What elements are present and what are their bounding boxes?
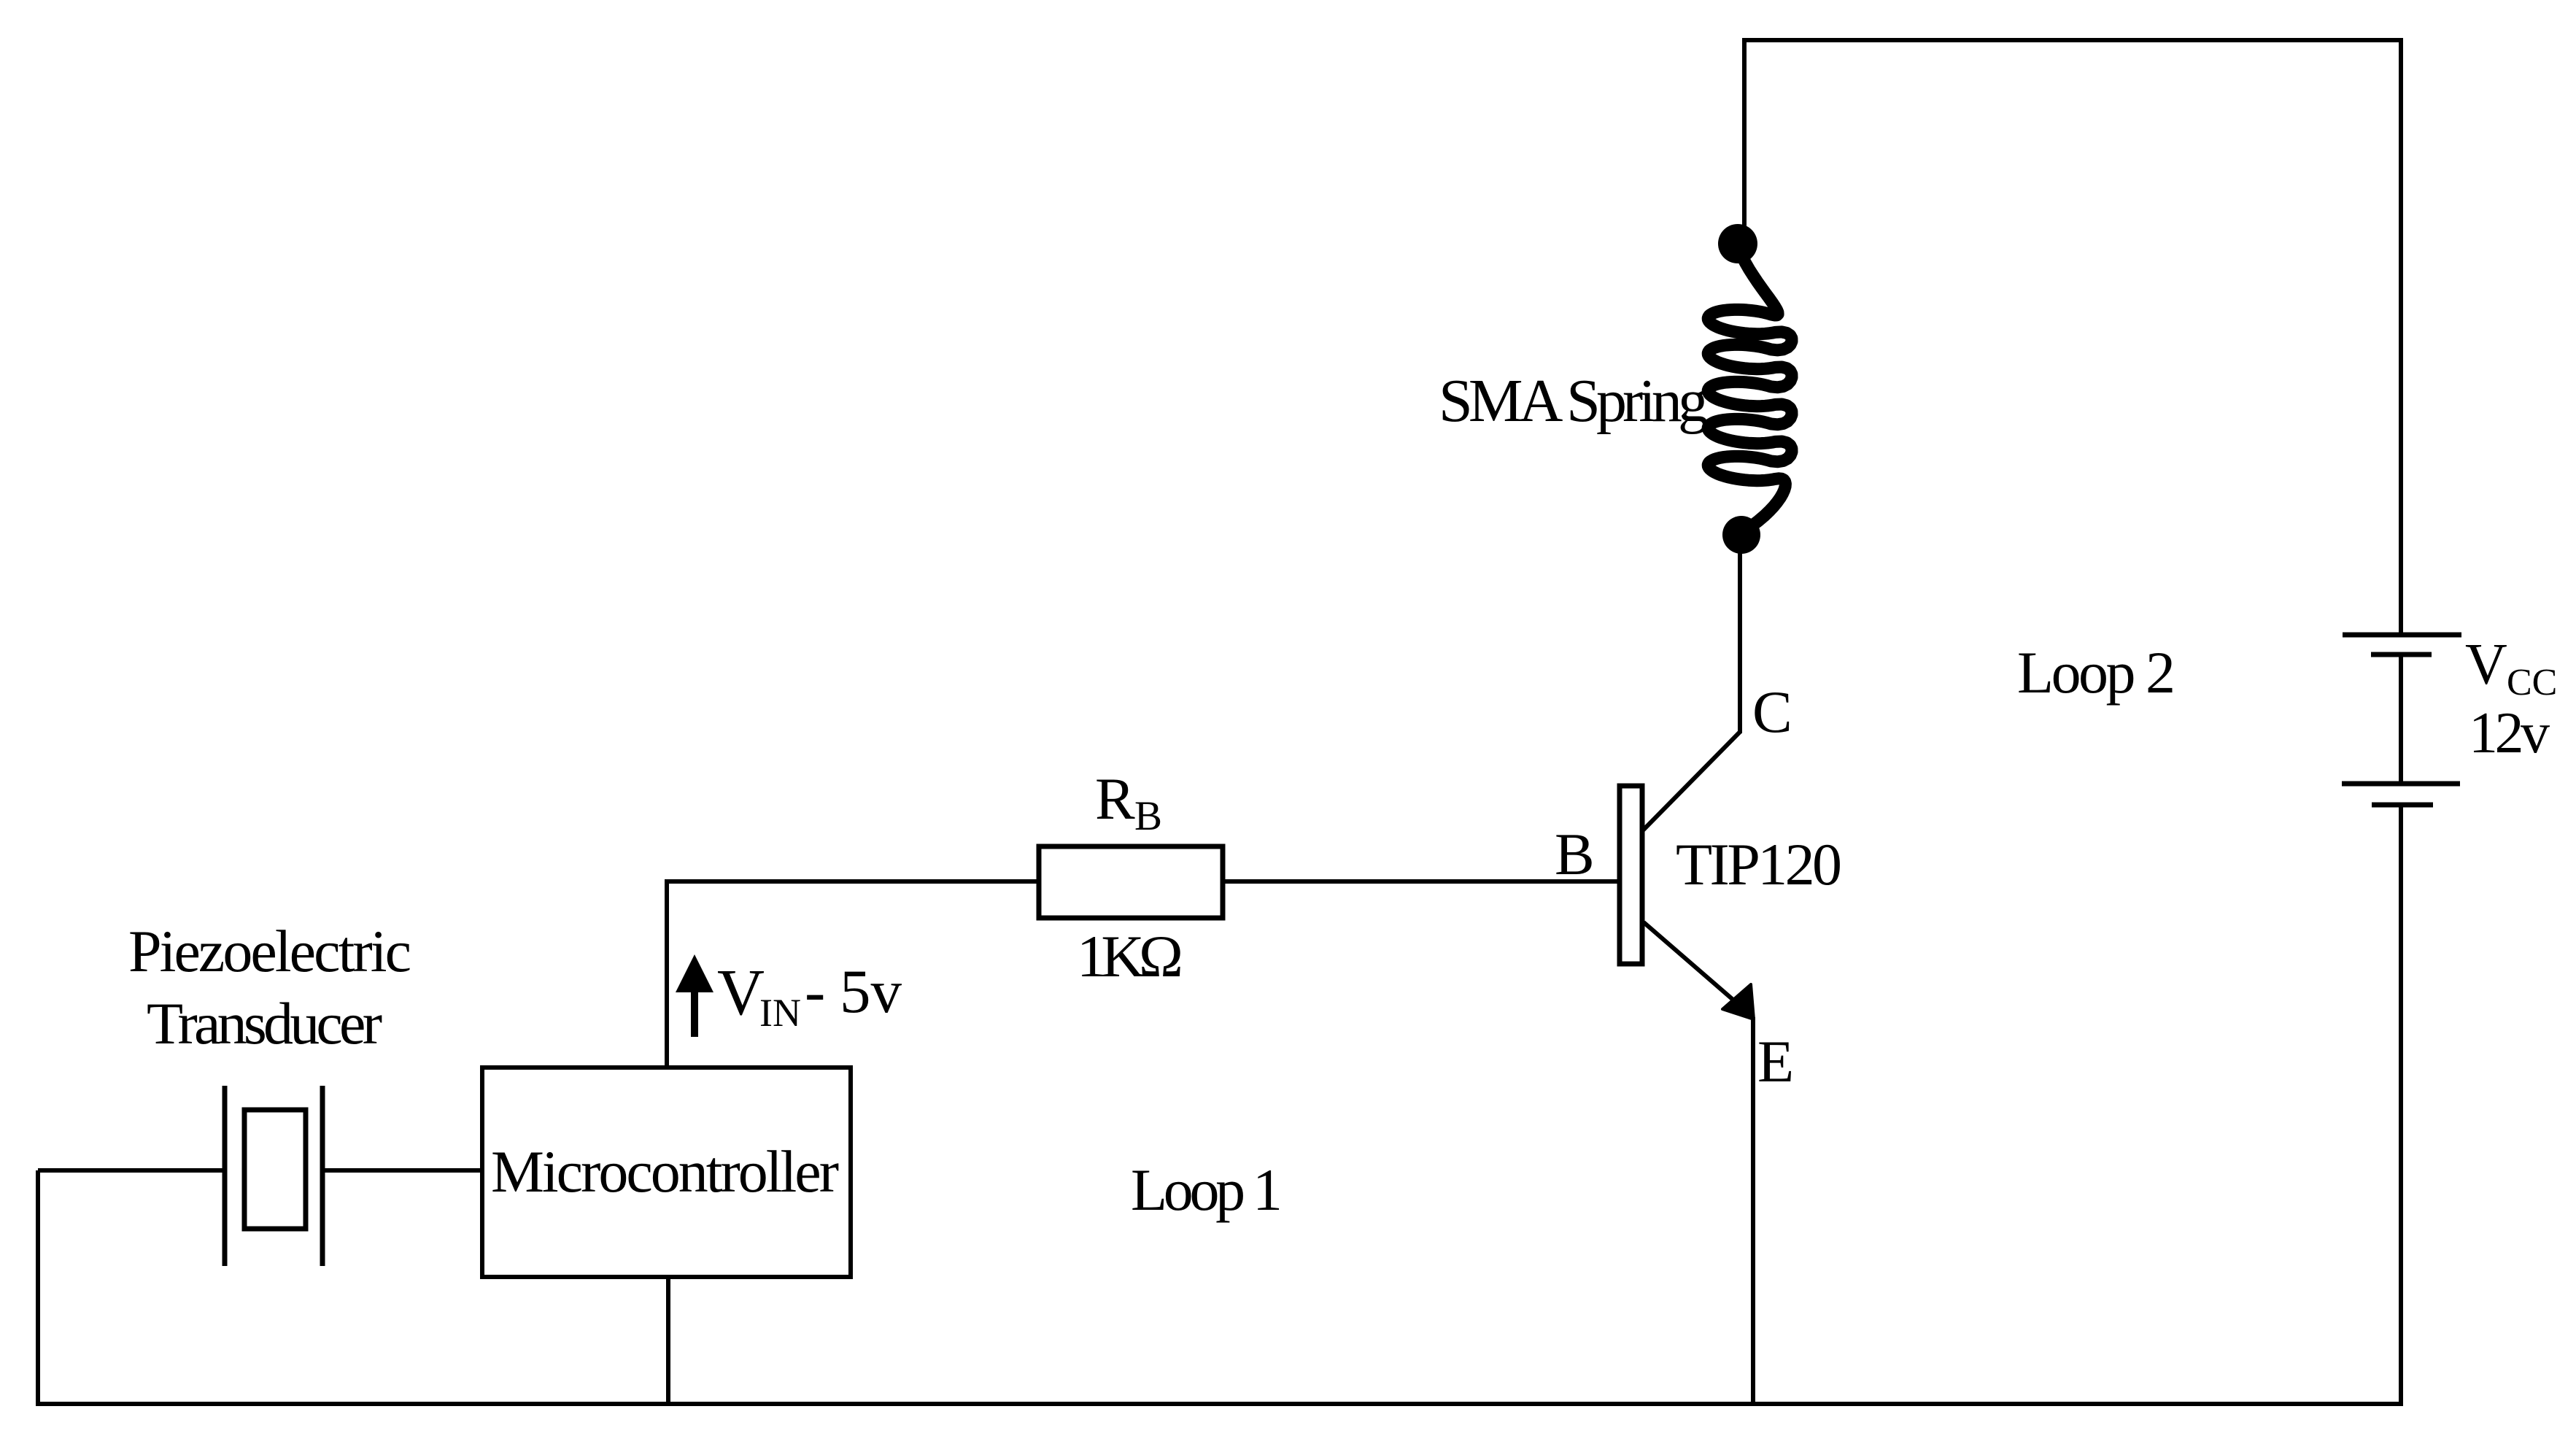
svg-text:Loop 1: Loop 1 <box>1131 1157 1283 1223</box>
piezoelectric transducer X1 right electrode plate <box>320 1086 325 1266</box>
wire: left rail vertical of Loop 1 <box>36 1170 40 1404</box>
svg-text:V: V <box>2465 633 2507 697</box>
svg-text:Transducer: Transducer <box>147 990 382 1057</box>
transistor Q1 TIP120 base bar <box>1620 786 1642 964</box>
svg-text:C: C <box>1752 679 1792 745</box>
svg-text:12v: 12v <box>2469 701 2550 765</box>
svg-text:CC: CC <box>2507 662 2557 703</box>
svg-text:B: B <box>1134 793 1162 839</box>
svg-text:B: B <box>1555 821 1595 887</box>
svg-text:Microcontroller: Microcontroller <box>491 1138 839 1205</box>
wire: collector diagonal lead into transistor base bar <box>1641 732 1740 833</box>
wire: VIN output from microcontroller up to base resistor (node VIN) <box>665 881 669 1068</box>
svg-text:Piezoelectric: Piezoelectric <box>128 918 411 984</box>
wire: resistor RB right lead to base bar of Q1 <box>1223 879 1620 884</box>
wire: spring bottom terminal down to collector bend <box>1738 544 1742 733</box>
svg-text:1KΩ: 1KΩ <box>1077 923 1183 989</box>
piezoelectric transducer X1 crystal body <box>244 1110 306 1229</box>
svg-text:E: E <box>1757 1028 1794 1095</box>
svg-text:Loop 2: Loop 2 <box>2017 639 2175 706</box>
wire: battery inter-cell link <box>2399 655 2403 784</box>
node: SMA spring top terminal dot <box>1718 224 1757 263</box>
wire: microcontroller ground lead down to bottom rail <box>666 1277 670 1404</box>
wire: base node horizontal to resistor RB left lead <box>665 879 1039 884</box>
battery VCC cell1 negative short plate <box>2371 652 2432 657</box>
wire: Loop 2 top horizontal (node C branch to VCC+) <box>1744 38 2401 42</box>
wire: bottom ground rail (shared return of Loop 1 and Loop 2) <box>36 1402 2403 1406</box>
microcontroller U1 box <box>482 1068 851 1277</box>
wire: Loop 2 right vertical down to battery positive plate <box>2399 38 2403 633</box>
SMA Spring coil (shape-memory alloy spring) <box>1708 250 1792 530</box>
wire: left rail to piezo left electrode <box>38 1168 223 1173</box>
wire: vertical from top wire down to SMA spring top terminal <box>1742 38 1747 235</box>
emitter arrowhead of Q1 (NPN arrow) <box>1722 984 1754 1019</box>
svg-text:R: R <box>1095 765 1135 832</box>
resistor RB body <box>1039 846 1223 918</box>
node: SMA spring bottom terminal dot <box>1722 516 1760 554</box>
svg-text:SMA Spring: SMA Spring <box>1439 367 1709 435</box>
svg-text:TIP120: TIP120 <box>1676 831 1842 897</box>
svg-text:-: - <box>805 957 825 1026</box>
wire: emitter diagonal lead of Q1 <box>1644 922 1741 1007</box>
battery VCC cell1 positive long plate <box>2343 633 2461 638</box>
VIN arrow symbol (signal direction) <box>691 989 698 1037</box>
battery VCC cell2 negative short plate <box>2372 803 2433 808</box>
svg-text:IN: IN <box>759 991 801 1035</box>
battery VCC cell2 positive long plate <box>2342 781 2460 787</box>
wire: battery negative down to bottom rail <box>2399 805 2403 1406</box>
wire: emitter vertical down to bottom rail <box>1751 1017 1755 1406</box>
wire: piezo right electrode to microcontroller input <box>325 1168 482 1173</box>
svg-text:5v: 5v <box>840 957 902 1026</box>
piezoelectric transducer X1 left electrode plate <box>223 1086 228 1266</box>
svg-text:V: V <box>717 957 765 1029</box>
